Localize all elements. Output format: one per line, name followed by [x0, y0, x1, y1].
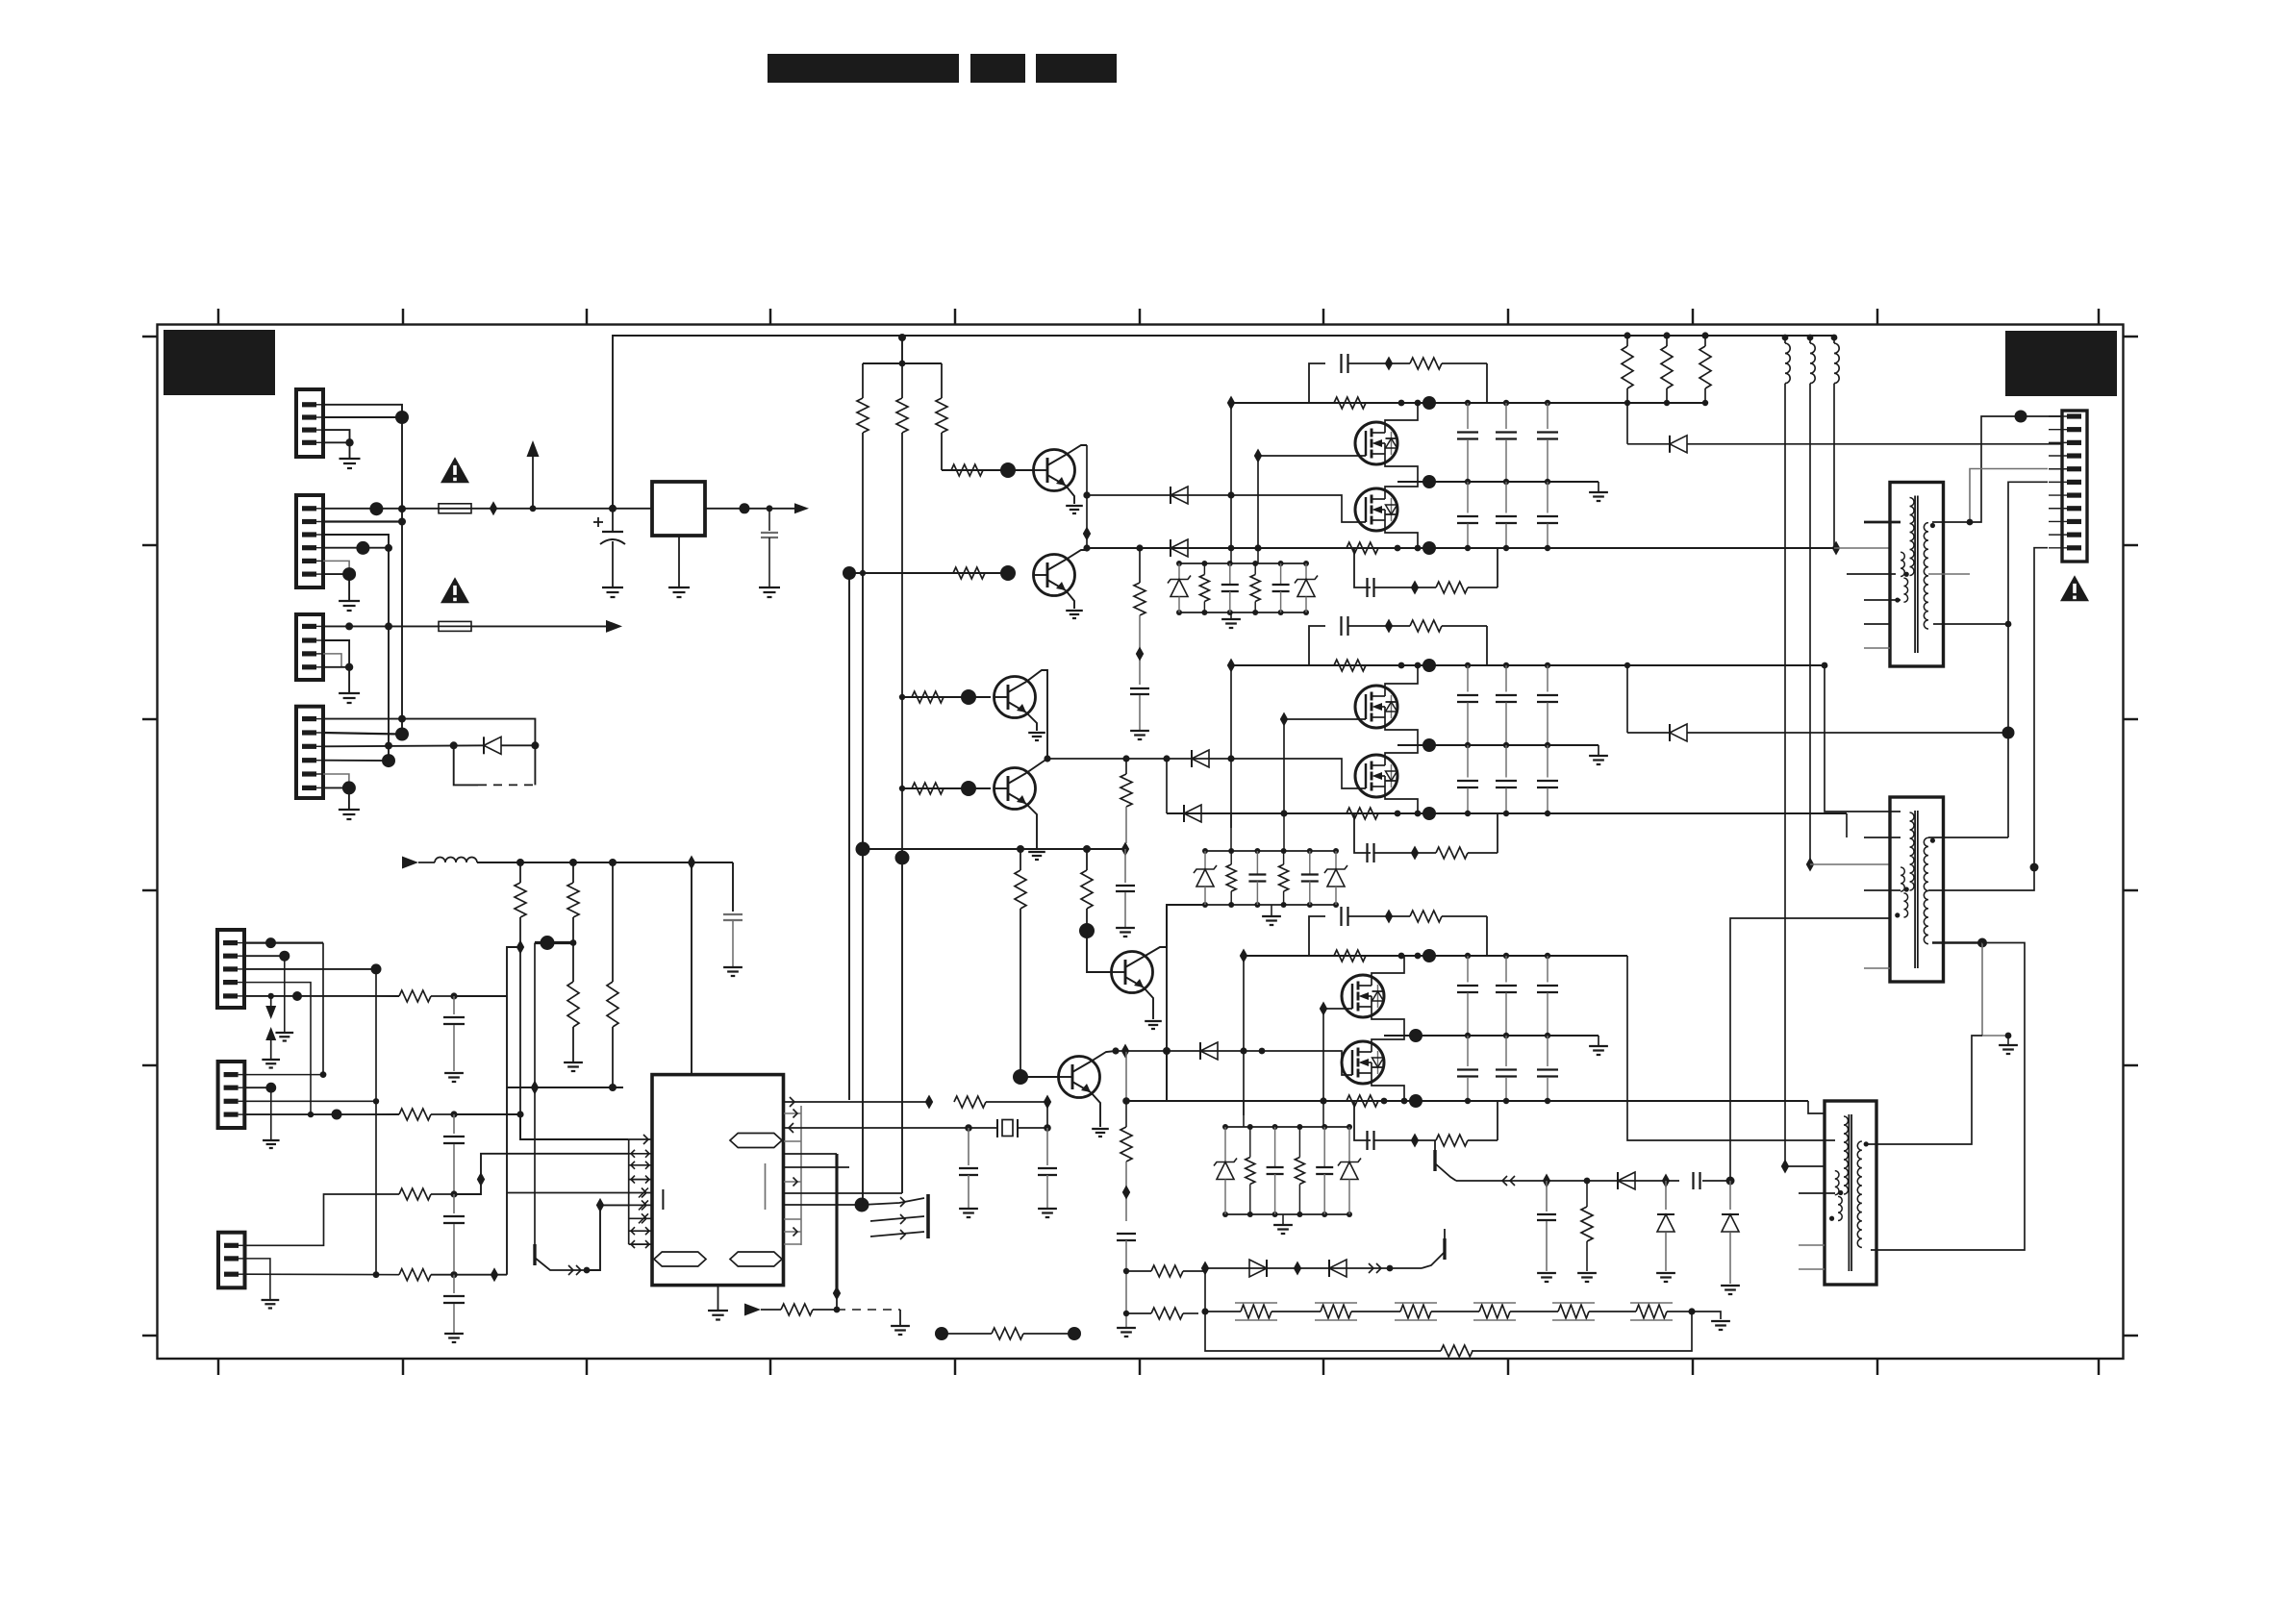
- PB2 rail resistor: [1334, 660, 1366, 671]
- T3 core: [1848, 1114, 1850, 1271]
- T1 right stub y649: [1933, 623, 2008, 625]
- PB3 rail resistor: [1334, 950, 1366, 962]
- junction chain1: [1584, 1178, 1591, 1185]
- cap C-out: [768, 509, 770, 531]
- frame tick marks top: [217, 309, 219, 325]
- T3 aux winding 2: [1838, 1196, 1842, 1220]
- N3 hang wire: [1243, 1101, 1245, 1127]
- resistor R-osc: [954, 1096, 986, 1108]
- ground Q2: [1066, 610, 1083, 612]
- wire row4 right: [454, 1274, 507, 1276]
- junction PB1 mid big: [1422, 475, 1436, 488]
- PB3 bot rail resistor: [1347, 1095, 1378, 1107]
- cap column PB3 x1566 lower: [1505, 1036, 1507, 1066]
- title redaction bar 2: [970, 54, 1025, 83]
- IC right pin y1229: [784, 1181, 801, 1183]
- wire PB1 M-upper drain: [1385, 403, 1418, 422]
- connector CN6: [218, 1062, 245, 1128]
- dashed wire: [478, 784, 535, 786]
- wire CN5 pin4: [244, 983, 311, 1115]
- ground x1608: [1537, 1272, 1556, 1274]
- diode D-standby: [484, 737, 501, 754]
- PB3 drop x1213: [1166, 1051, 1168, 1101]
- wire to ground CN2: [348, 574, 350, 601]
- ground regulator: [668, 587, 690, 588]
- N3 hang wire gate col: [1322, 1101, 1324, 1127]
- wire CN7 pin1 to row3: [244, 1194, 399, 1245]
- diamond osc right: [1044, 1095, 1051, 1110]
- junction x1171 rail: [1122, 1097, 1130, 1105]
- PB2 left column: [1230, 665, 1232, 828]
- wire CN4 pin4: [323, 760, 389, 762]
- ground C-762: [723, 966, 743, 968]
- wire Q6 collector: [1091, 1051, 1116, 1062]
- junction CN3 pin4: [345, 663, 353, 671]
- black label block top-left: [164, 330, 275, 395]
- wire PB3 M-upper drain: [1372, 956, 1404, 975]
- junction chain2: [1387, 1265, 1394, 1272]
- junction x391 row4: [373, 1271, 380, 1278]
- T1 secondary winding: [1924, 523, 1928, 629]
- wire CN2 pin1 main feed: [323, 508, 439, 510]
- junction row2 x541: [516, 1111, 523, 1117]
- cap C-sense: [1117, 1233, 1136, 1235]
- junction crystal left: [965, 1124, 972, 1132]
- coil L-c: [1831, 335, 1838, 341]
- IC right pin y1281: [784, 1231, 801, 1233]
- T2 right secondary bottom: [1932, 941, 1982, 943]
- up arrow +supply: [527, 440, 540, 457]
- PB2 drop x1213: [1163, 755, 1170, 762]
- wire CN6 pin2: [244, 1087, 271, 1088]
- wire PB3 M-upper source: [1372, 1017, 1404, 1036]
- N1 hang wire gate col: [1257, 548, 1259, 563]
- wire PB3 M-upper gate: [1323, 1008, 1352, 1010]
- IC pin dblarrow 2: [631, 1153, 649, 1155]
- cap column PB1 x1609 upper: [1545, 400, 1550, 406]
- junction x391 CN6 pin3: [373, 1098, 379, 1104]
- junction y1093 x1312: [1259, 1048, 1266, 1055]
- PB2 bot diode: [1184, 805, 1201, 822]
- wire Q4 emitter: [1026, 804, 1037, 850]
- wire crystal left seg: [969, 1127, 997, 1129]
- junction x323 CN6 pin4: [308, 1112, 314, 1117]
- cap C-row3: [453, 1194, 455, 1213]
- wire CN7 pin3 row4: [244, 1273, 399, 1276]
- junction x404 crossing: [385, 742, 392, 750]
- cap x1608 down: [1546, 1181, 1548, 1212]
- PB1 rail resistor: [1334, 397, 1366, 409]
- PB2 snubber bottom: [1366, 843, 1368, 862]
- junction PB2 bot big: [1422, 807, 1436, 820]
- wire to ground CN3: [348, 667, 350, 693]
- diamond PB3 gate1: [1320, 1002, 1327, 1016]
- T3 phase dots: [1864, 1141, 1869, 1146]
- junction PB2 F1 start: [1044, 755, 1050, 762]
- IC left pin 6: [629, 1204, 652, 1206]
- T3 left stub y1241: [1799, 1192, 1835, 1194]
- IC U1 hexagon label bottom-left: [654, 1252, 706, 1266]
- warning triangle 1: [441, 457, 469, 483]
- T2 right stub y926: [1928, 889, 1969, 891]
- junction diode left: [450, 741, 458, 749]
- wire F1 to regulator: [471, 508, 652, 510]
- zener network N1: [1179, 562, 1306, 564]
- ground T2 sec: [1999, 1044, 2018, 1046]
- ground x1170: [1116, 927, 1135, 929]
- cap column PB1 x1609 lower: [1547, 482, 1548, 513]
- wire PB1 M-lower source: [1385, 531, 1418, 548]
- wire Q2 collector: [1066, 548, 1087, 560]
- PB2 bot rail resistor: [1347, 808, 1378, 819]
- wire x2088 CN8 pin6 drop: [2008, 482, 2048, 837]
- diamond T2 feed: [1806, 858, 1814, 872]
- wire PB2 M-lower gate: [1335, 759, 1366, 788]
- IC pin dblarrow 3: [631, 1164, 649, 1166]
- resistor R-row1: [399, 990, 431, 1002]
- wire CN2 pin3: [323, 535, 389, 548]
- ground C-osc1: [959, 1208, 978, 1210]
- small transistor TR2: [1443, 1238, 1446, 1260]
- T1 aux winding 2: [1903, 578, 1907, 602]
- diamond x870: [833, 1287, 841, 1301]
- junction CN5 pin3 big: [371, 963, 382, 974]
- diamond node F1 out: [490, 501, 497, 515]
- PB3 bottom rail wire: [1126, 1100, 1808, 1102]
- diamond chain2 left: [1201, 1262, 1209, 1276]
- chevrons TR1: [1502, 1176, 1507, 1186]
- junction y1077: [2005, 1033, 2012, 1039]
- T1 left stub y597: [1847, 573, 1896, 575]
- junction CN2 pin4 big: [356, 541, 369, 555]
- connector CN8: [2062, 411, 2087, 562]
- IC left pin 2: [629, 1153, 652, 1155]
- junction out cap: [767, 505, 773, 512]
- ladder resistor 2: [1321, 1305, 1351, 1318]
- diamond PB1 gate1: [1254, 449, 1262, 463]
- title redaction bar 1: [768, 54, 959, 83]
- wire CN2 pin4: [323, 547, 389, 549]
- IC left pin 9: [629, 1243, 652, 1245]
- ladder right end: [1667, 1311, 1692, 1312]
- electrolytic cap C-in: [612, 509, 614, 532]
- wire x418 lower: [401, 522, 403, 735]
- wire PB1 M-upper source: [1385, 464, 1418, 482]
- fuse F2: [439, 625, 471, 627]
- junction CN5 pin2 big: [279, 951, 290, 962]
- cap C-osc1: [968, 1128, 969, 1165]
- junction row1: [450, 992, 457, 999]
- cap column PB2 x1609 lower: [1547, 745, 1548, 778]
- wire row1 right: [454, 995, 507, 997]
- junction PB1 gate column bottom: [1254, 544, 1261, 551]
- junction top x938: [898, 334, 906, 341]
- IC pin arrow in 1: [643, 1135, 648, 1144]
- wire x541 to IC pin1: [520, 1114, 629, 1139]
- wire x391 link: [375, 969, 377, 1275]
- T2 left stub y1007: [1864, 967, 1890, 969]
- junction PB3 bot big: [1409, 1094, 1422, 1108]
- ground CN6 pin2: [263, 1139, 280, 1141]
- IC right pin y1214 from x883: [784, 1166, 849, 1168]
- ground comp: [891, 1325, 910, 1327]
- PB3 bottom rail junctions: [1381, 1098, 1388, 1105]
- junction crystal right: [1044, 1124, 1051, 1132]
- bus thick y980: [535, 941, 573, 944]
- junction Q3 base: [961, 689, 976, 705]
- arrow output net: [794, 503, 809, 513]
- connector CN4: [296, 707, 323, 798]
- junction CN4 pin1 x418: [398, 715, 406, 723]
- T3 right stub y1300: [1871, 943, 2025, 1251]
- PB1 bottom rail junctions: [1395, 545, 1401, 552]
- PB2 rail into T2: [1846, 813, 1848, 837]
- ladder bottom loop: [1205, 1312, 1441, 1351]
- diamond PB2 gate1: [1280, 712, 1288, 727]
- wire PB2 M-lower drain: [1385, 745, 1418, 755]
- IC left pin 4: [629, 1179, 652, 1181]
- cap column PB1 x1526 upper: [1465, 400, 1471, 406]
- diamond T1 feed: [1832, 541, 1840, 556]
- junction x938 y820: [899, 786, 905, 791]
- resistor R-c vertical: [941, 363, 943, 398]
- wire CN5 pin2: [244, 955, 285, 957]
- junction node VIN: [369, 502, 383, 515]
- ground Q3: [1028, 732, 1045, 734]
- T1 primary winding: [1910, 498, 1915, 576]
- wire Q1 collector column: [1086, 445, 1088, 548]
- wire Q1 emitter: [1066, 486, 1074, 504]
- ground PB2 mid: [1598, 745, 1599, 755]
- PB2 rail junctions: [1398, 662, 1405, 669]
- transformer T2 body: [1890, 797, 1944, 982]
- wire Q5 collector: [1144, 905, 1205, 957]
- wire Q3 collector: [1026, 670, 1047, 759]
- resistor R-Q4base: [912, 783, 944, 794]
- diamond x1170: [1121, 842, 1129, 857]
- IC U1 hexagon label top-right: [730, 1134, 782, 1148]
- cap C-osc2: [1046, 1128, 1048, 1165]
- T1 right stub y543 to CN8 pin1: [1932, 416, 2061, 522]
- PB2 diamond top rail: [1227, 659, 1235, 673]
- wire CN5 pin5 row1: [244, 995, 399, 997]
- junction x637b: [609, 859, 617, 866]
- wire CN3 pin3: [323, 654, 341, 667]
- wire CN1 pin1 to node: [323, 405, 402, 417]
- transformer T3 body: [1825, 1101, 1876, 1285]
- wire top supply rail: [613, 336, 1834, 509]
- wire F2 long: [471, 625, 606, 627]
- junction CN4 pin4 big: [382, 754, 395, 767]
- wire PB3 M-lower drain: [1372, 1036, 1404, 1041]
- wire Q3 base line: [902, 696, 991, 698]
- diamond chain2: [1294, 1262, 1301, 1276]
- IC left pin bus: [628, 1139, 630, 1244]
- PB1 feed line F1: [1087, 494, 1335, 496]
- IC U1 hexagon label bottom-right: [730, 1252, 782, 1266]
- junction sw1: [584, 1267, 591, 1274]
- T2 phase dots: [1930, 838, 1935, 843]
- wire CN1 pin4: [323, 441, 350, 443]
- T3 left stub y1186: [1627, 956, 1835, 1140]
- junction CN6 pin4 big: [332, 1110, 342, 1120]
- ladder resistor 6: [1636, 1305, 1667, 1318]
- PB2 feed line F1: [1047, 758, 1335, 760]
- junction x897 crossing: [860, 570, 866, 576]
- PB1 rail junctions: [1398, 400, 1405, 407]
- wire CN4 pin5: [323, 774, 349, 787]
- junction reg out big: [740, 503, 750, 513]
- junction CN5 pin5: [268, 993, 274, 999]
- T1 left stub bold: [1864, 521, 1901, 524]
- junction CN3 pin1 a: [345, 622, 353, 630]
- wire dashed right leg: [534, 745, 536, 785]
- wire PB2 gate column: [1283, 719, 1285, 813]
- T3 primary winding: [1844, 1116, 1849, 1194]
- junction y762 big: [2002, 727, 2015, 739]
- PB2 top rail: [1231, 664, 1825, 666]
- cap column PB2 x1609 upper: [1545, 662, 1550, 668]
- connector CN2: [296, 495, 323, 587]
- wire CN5 pin3 long: [244, 968, 376, 970]
- PB1 bot rail resistor: [1347, 542, 1378, 554]
- junction CN2 pin6: [342, 567, 356, 581]
- diamond sense: [1122, 1186, 1130, 1200]
- ground Q4: [1028, 851, 1045, 853]
- junction PB3 F1 column: [1240, 1047, 1246, 1054]
- title redaction bar 3: [1036, 54, 1117, 83]
- wire corner down x762: [732, 862, 734, 912]
- frame tick marks left: [142, 336, 158, 337]
- ground x1650: [1577, 1272, 1597, 1274]
- junction diode right: [531, 741, 539, 749]
- cap column PB1 x1526 lower: [1467, 482, 1469, 513]
- ladder resistor 5: [1558, 1305, 1589, 1318]
- wire x596 res: [572, 862, 574, 883]
- ground sense: [1117, 1327, 1136, 1329]
- IC left pin 7: [629, 1217, 652, 1219]
- diamond ic pin6 feed: [596, 1198, 604, 1212]
- voltage regulator U2: [652, 482, 705, 536]
- T2 left stub y871: [1864, 837, 1901, 838]
- PB1 junction 1280-570: [1228, 545, 1235, 552]
- wire x1171 sense from F1: [1125, 1051, 1127, 1101]
- junction PB1 bot big: [1422, 541, 1436, 555]
- ground C-osc2: [1038, 1208, 1057, 1210]
- wire PB3 gate column: [1322, 1009, 1324, 1101]
- cap x1170: [1124, 849, 1126, 883]
- wire crystal right seg: [1018, 1127, 1047, 1129]
- chain x1171 resistor: [1125, 759, 1127, 774]
- resistor R-Q2base: [953, 567, 985, 579]
- coil L-a: [1782, 335, 1789, 341]
- wire CN4 pin3 diode line: [323, 745, 486, 746]
- junction x637 on feed: [609, 505, 617, 512]
- junction node y883 big: [856, 842, 870, 857]
- cap column PB3 x1566 upper: [1503, 953, 1509, 959]
- PB1 snubber top: [1340, 354, 1342, 373]
- wire PB3 M-lower source: [1372, 1084, 1404, 1101]
- cap column PB2 x1566 lower: [1505, 745, 1507, 778]
- diamond y1131: [531, 1081, 539, 1095]
- junction CN5 pin1 big: [265, 937, 276, 948]
- ground CN7 pin2: [262, 1299, 280, 1301]
- wire CN4 pin2: [323, 733, 402, 735]
- fuse F1: [439, 508, 471, 510]
- wire Q6 emitter: [1091, 1092, 1100, 1127]
- resistor R-row2: [399, 1109, 431, 1120]
- resistor x637 lower: [607, 982, 618, 1027]
- IC left pin 8: [629, 1230, 652, 1232]
- IC right grey bus: [800, 1106, 802, 1245]
- T2 secondary winding: [1924, 837, 1928, 943]
- junction PB2 mid big: [1422, 738, 1436, 752]
- ground row4: [444, 1333, 464, 1335]
- wire CN6 pin3: [244, 1100, 376, 1102]
- PB3 mid rail: [1384, 1035, 1599, 1037]
- N2 hang wire: [1230, 813, 1232, 851]
- electrolytic cap C-in plus: [593, 521, 603, 523]
- wire x637 long: [612, 862, 614, 982]
- diamond x719: [688, 856, 695, 870]
- crystal X1: [996, 1119, 998, 1137]
- junction y1093 x1213: [1163, 1047, 1171, 1055]
- zener network N3: [1225, 1126, 1349, 1128]
- wire x541: res chain: [519, 862, 521, 883]
- ground C-out: [759, 587, 780, 588]
- cap column PB1 x1566 upper: [1503, 400, 1509, 406]
- cap chain1: [1692, 1172, 1694, 1189]
- IC U1 ground: [718, 1286, 719, 1310]
- frame tick marks bottom: [217, 1359, 219, 1375]
- diode chain1: [1618, 1172, 1635, 1189]
- T1 core: [1914, 496, 1916, 654]
- wire x1799 up to T2: [1730, 918, 1890, 1181]
- isolated link y1387: [935, 1327, 948, 1340]
- black label block top-right: [2005, 331, 2117, 396]
- arrow feed in: [402, 857, 418, 869]
- IC pin tri-arrow: [642, 1200, 646, 1210]
- MOSFET lower PB1: [1355, 488, 1397, 531]
- TR1 chain y1228: [1456, 1180, 1679, 1182]
- junction arrow stem: [530, 505, 537, 512]
- wire Q2 emitter: [1066, 590, 1074, 609]
- frame tick marks right: [2124, 336, 2139, 337]
- wire CN3 pin1 fuse feed: [323, 625, 439, 627]
- cap column PB3 x1526 lower: [1467, 1036, 1469, 1066]
- T3 left stub y1320: [1799, 1268, 1825, 1270]
- T3 right stub y1190: [1864, 1036, 1982, 1144]
- wire Q4 base line: [902, 787, 991, 789]
- resistor R-fb1: [1126, 1270, 1151, 1272]
- wire CN2 pin5: [323, 561, 349, 574]
- junction fb2: [1123, 1311, 1129, 1316]
- warning triangle 2: [441, 577, 469, 603]
- cap column PB2 x1566 upper: [1503, 662, 1509, 668]
- junction PB2 gate column bottom: [1280, 810, 1287, 816]
- small transistor sw1: [533, 1244, 536, 1265]
- wire dashed return left leg: [454, 745, 478, 785]
- cap column PB1 x1566 lower: [1505, 482, 1507, 513]
- resistor R-sense: [1125, 1101, 1127, 1127]
- diamond chain1: [1543, 1174, 1550, 1188]
- junction Q1 base: [1000, 462, 1016, 478]
- cap column PB3 x1609 lower: [1547, 1036, 1548, 1066]
- IC right pin y1294: [784, 1243, 801, 1245]
- junction T2 sec big: [1977, 938, 1987, 948]
- diamond x541 y985: [516, 940, 524, 955]
- wire x556 standby net: [534, 943, 536, 1245]
